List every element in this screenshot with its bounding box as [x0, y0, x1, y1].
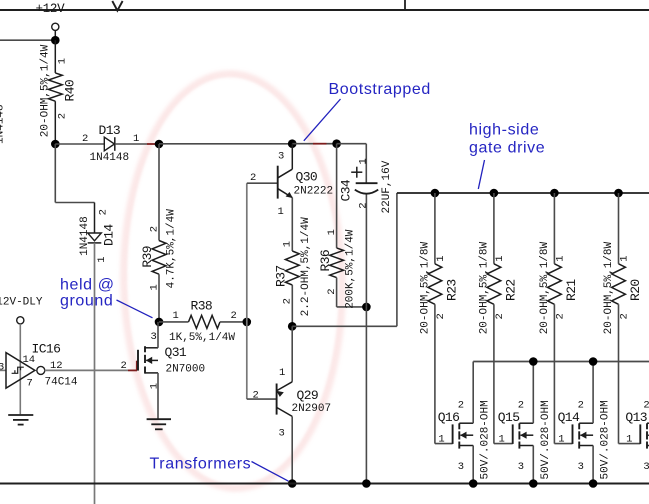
svg-text:Q29: Q29 — [297, 388, 319, 403]
node junction Q14 drain — [589, 357, 598, 366]
transistor Q16 — [435, 443, 453, 445]
wire Q29 emitter up — [291, 326, 293, 382]
transistor Q14 — [554, 443, 572, 445]
svg-text:7: 7 — [27, 377, 33, 389]
svg-text:1: 1 — [626, 434, 632, 446]
svg-text:1N4148: 1N4148 — [0, 104, 6, 144]
svg-text:Q15: Q15 — [498, 410, 520, 425]
wire high-side gate bus — [397, 192, 649, 194]
transistor Q29 — [276, 384, 278, 415]
node junction at R40 top — [51, 36, 60, 45]
svg-text:3: 3 — [643, 461, 649, 473]
svg-text:2N2907: 2N2907 — [292, 403, 332, 415]
svg-text:20-OHM,5%,1/8W: 20-OHM,5%,1/8W — [603, 241, 615, 334]
wire R40 to D13 — [55, 143, 104, 145]
wire maroon segment before node — [147, 143, 159, 145]
svg-text:IC16: IC16 — [32, 342, 61, 357]
svg-text:3: 3 — [0, 361, 4, 373]
node junction R21 on gate bus — [550, 189, 559, 198]
wire riser up to gate bus — [396, 193, 398, 326]
svg-text:2: 2 — [435, 313, 447, 319]
svg-text:R36: R36 — [318, 250, 333, 272]
svg-text:1: 1 — [279, 367, 285, 379]
svg-text:20-OHM,5%,1/8W: 20-OHM,5%,1/8W — [420, 241, 432, 334]
node junction Q15 source — [529, 479, 538, 488]
wire R37 node to riser — [292, 325, 397, 327]
svg-text:12V-DLY: 12V-DLY — [0, 297, 43, 309]
wire from left edge to +12V node — [0, 39, 55, 41]
wire Q30 base — [247, 182, 278, 184]
svg-text:Transformers: Transformers — [150, 455, 252, 472]
wire arrowhead into top bus — [112, 1, 122, 11]
wire stub from top edge — [404, 0, 406, 10]
resistor R37 — [285, 251, 299, 285]
svg-text:1: 1 — [173, 310, 179, 322]
resistor R21 — [553, 193, 555, 264]
svg-text:1K,5%,1/4W: 1K,5%,1/4W — [169, 332, 235, 344]
node junction R37/Q29 emitter — [288, 322, 297, 331]
svg-text:R38: R38 — [191, 299, 213, 314]
svg-text:3: 3 — [279, 427, 285, 439]
svg-text:Q16: Q16 — [438, 410, 460, 425]
svg-text:R22: R22 — [503, 279, 518, 301]
wire node to Q30 collector node — [159, 143, 292, 145]
svg-text:1: 1 — [558, 434, 564, 446]
wire maroon segment on top net — [313, 143, 327, 145]
capacitor C34 — [365, 144, 367, 184]
svg-text:Q13: Q13 — [625, 410, 647, 425]
op-amp IC16 inverter — [6, 353, 35, 389]
svg-text:Q31: Q31 — [165, 345, 187, 360]
wire C34 node down to bottom bus — [365, 307, 367, 484]
svg-text:Q30: Q30 — [296, 169, 318, 184]
svg-text:R40: R40 — [63, 80, 78, 102]
annotation line held — [117, 300, 153, 318]
svg-text:2: 2 — [250, 172, 256, 184]
svg-text:R20: R20 — [628, 279, 643, 301]
wire maroon to R36 node — [327, 143, 337, 145]
diode D13 — [104, 137, 114, 151]
node junction C34 rail on bottom bus — [362, 479, 371, 488]
svg-text:2: 2 — [555, 313, 567, 319]
node junction R23 on gate bus — [431, 189, 440, 198]
svg-text:1: 1 — [278, 206, 284, 218]
resistor R40 — [54, 40, 56, 73]
annotation line gate drive — [478, 160, 484, 189]
svg-text:20-OHM,5%,1/8W: 20-OHM,5%,1/8W — [539, 241, 551, 334]
ground IC16 — [8, 414, 33, 416]
wire Q31 source — [157, 373, 159, 419]
svg-text:3: 3 — [518, 461, 524, 473]
svg-text:1: 1 — [435, 255, 447, 261]
svg-text:3: 3 — [458, 461, 464, 473]
annotation line Bootstrapped — [304, 99, 341, 141]
wire IC16 input — [0, 369, 6, 371]
wire D13 to node — [115, 143, 147, 145]
node junction R39/R38/Q31 — [155, 318, 164, 327]
svg-text:200K,5%,1/4W: 200K,5%,1/4W — [344, 229, 356, 309]
svg-text:Bootstrapped: Bootstrapped — [329, 81, 431, 98]
wire drain bus — [473, 361, 649, 363]
svg-text:D14: D14 — [101, 224, 116, 246]
svg-text:14: 14 — [23, 354, 36, 366]
wire bottom bus — [0, 483, 649, 485]
svg-text:1: 1 — [148, 284, 160, 290]
svg-text:2: 2 — [148, 226, 160, 232]
resistor R38 — [159, 321, 189, 323]
wire top +12V bus — [0, 9, 649, 11]
svg-text:R21: R21 — [564, 279, 579, 301]
node junction R38/Q30/Q29 rail — [243, 318, 252, 327]
wire over to D14 — [55, 202, 94, 204]
svg-text:2: 2 — [98, 209, 110, 215]
svg-text:1: 1 — [282, 241, 294, 247]
resistor R36 — [336, 144, 338, 248]
svg-text:2: 2 — [326, 288, 338, 294]
svg-text:1: 1 — [438, 434, 444, 446]
svg-text:2: 2 — [231, 310, 237, 322]
svg-text:3: 3 — [578, 461, 584, 473]
wire C34 bottom to node — [365, 195, 367, 307]
svg-text:1: 1 — [357, 158, 369, 164]
node junction R36 top — [332, 139, 341, 148]
svg-text:2: 2 — [57, 113, 69, 119]
supply terminal +12V — [52, 23, 59, 30]
node junction R40 bottom — [51, 140, 60, 149]
svg-text:2: 2 — [619, 313, 631, 319]
transistor Q13 — [619, 443, 641, 445]
wire D14 anode down left rail — [94, 243, 96, 504]
svg-text:4.7K,5%,1/4W: 4.7K,5%,1/4W — [165, 209, 177, 289]
transistor Q15 — [494, 443, 513, 445]
wire Q30 emitter down — [291, 198, 293, 251]
svg-text:R23: R23 — [444, 279, 459, 301]
wire maroon Q31 gate stub — [128, 369, 137, 371]
svg-text:Q14: Q14 — [558, 410, 580, 425]
svg-text:1: 1 — [555, 255, 567, 261]
resistor R23 — [434, 193, 436, 264]
annotation line Transformers — [252, 462, 289, 482]
svg-text:gate drive: gate drive — [469, 139, 545, 156]
node junction Q29 on bottom bus — [288, 479, 297, 488]
svg-text:1N4148: 1N4148 — [79, 216, 91, 256]
svg-text:2: 2 — [121, 360, 127, 372]
svg-text:high-side: high-side — [469, 122, 539, 139]
svg-text:50V/.028-OHM: 50V/.028-OHM — [480, 400, 492, 479]
wire R36 node to C34 corner — [337, 143, 367, 145]
wire Q30-base rail vertical — [246, 183, 248, 399]
resistor R39 — [158, 144, 160, 241]
resistor R20 — [618, 193, 620, 264]
wire Q30 node to R36 node — [292, 143, 313, 145]
node junction Q30 collector — [288, 139, 297, 148]
svg-text:74C14: 74C14 — [45, 376, 78, 388]
wire IC16 pin14/pin7 vertical — [19, 324, 21, 414]
node junction D13/R39 — [155, 140, 164, 149]
svg-text:C34: C34 — [338, 179, 353, 201]
wire Q31 drain — [157, 322, 159, 348]
highlight ellipse (pink annotation) — [119, 71, 348, 492]
svg-text:3: 3 — [151, 331, 157, 343]
svg-text:1: 1 — [499, 434, 505, 446]
svg-text:held @: held @ — [60, 277, 115, 294]
diode D14 — [94, 203, 96, 234]
svg-text:2: 2 — [253, 389, 259, 401]
svg-text:1: 1 — [96, 256, 108, 262]
svg-text:2.2-OHM,5%,1/4W: 2.2-OHM,5%,1/4W — [300, 217, 312, 316]
ground Q31 — [147, 418, 171, 420]
node junction Q16 source — [469, 479, 478, 488]
node junction R22 on gate bus — [490, 189, 499, 198]
node junction Q14 source — [589, 479, 598, 488]
svg-text:1: 1 — [57, 58, 69, 64]
wire R40 node down — [54, 144, 56, 203]
svg-text:22UF,16V: 22UF,16V — [381, 160, 393, 213]
svg-text:1: 1 — [326, 229, 338, 235]
svg-text:3: 3 — [278, 151, 284, 163]
svg-text:+12V: +12V — [36, 2, 66, 16]
node junction R36/C34 bottom — [362, 303, 371, 312]
node junction R20 on gate bus — [614, 189, 623, 198]
svg-text:D13: D13 — [99, 123, 121, 138]
svg-text:2N2222: 2N2222 — [294, 186, 334, 198]
node junction Q15 drain — [529, 357, 538, 366]
svg-text:20-OHM,5%,1/8W: 20-OHM,5%,1/8W — [479, 241, 491, 334]
svg-text:ground: ground — [60, 293, 113, 310]
svg-text:1: 1 — [494, 255, 506, 261]
svg-text:2: 2 — [357, 202, 369, 208]
transistor Q31 — [137, 350, 139, 371]
svg-text:2: 2 — [494, 313, 506, 319]
svg-text:20-OHM,5%,1/4W: 20-OHM,5%,1/4W — [40, 44, 52, 137]
svg-text:50V/.028-OHM: 50V/.028-OHM — [600, 400, 612, 479]
svg-text:50V/.028-OHM: 50V/.028-OHM — [540, 400, 552, 479]
wire Q29 base — [247, 398, 277, 400]
resistor R22 — [493, 193, 495, 264]
svg-text:2: 2 — [82, 133, 88, 145]
svg-text:2N7000: 2N7000 — [166, 364, 206, 376]
svg-text:2: 2 — [282, 298, 294, 304]
svg-text:R39: R39 — [140, 246, 155, 268]
transistor Q30 — [277, 166, 279, 199]
svg-text:R37: R37 — [274, 265, 289, 287]
wire Q29 collector down — [291, 416, 293, 483]
svg-text:1N4148: 1N4148 — [90, 152, 130, 164]
svg-text:1: 1 — [619, 255, 631, 261]
wire IC16 output — [45, 369, 128, 371]
